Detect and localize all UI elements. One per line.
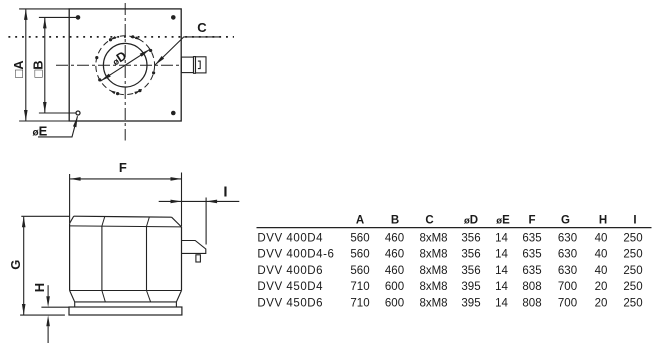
svg-text:I: I [633,214,636,226]
svg-text:560: 560 [350,265,369,277]
fan body lid seam [70,226,182,227]
svg-text:460: 460 [385,265,404,277]
plate outline (square base plate, top view) [69,9,181,121]
svg-text:F: F [119,160,127,175]
fan body bottom rim [75,301,177,303]
bolt hole dot 3 [109,38,112,41]
svg-text:40: 40 [595,232,608,244]
svg-text:14: 14 [495,232,508,244]
bolt hole dot 6 [116,92,119,95]
svg-text:B: B [391,214,399,226]
svg-text:808: 808 [522,298,541,310]
svg-text:808: 808 [522,281,541,293]
svg-text:8xM8: 8xM8 [419,298,447,310]
terminal box neck (top view) [181,57,193,73]
bolt hole dot 4 [95,56,98,59]
svg-text:14: 14 [495,265,508,277]
panel line 2 [146,226,148,290]
extension line A top [19,8,69,10]
svg-text:8xM8: 8xM8 [419,232,447,244]
svg-text:I: I [223,184,227,201]
dimension line G [23,217,25,315]
extension line F left [69,174,71,223]
svg-text:250: 250 [623,232,642,244]
terminal box (side view) [182,241,206,254]
svg-text:DVV 400D6: DVV 400D6 [257,265,323,277]
panel line 1 [101,226,103,291]
terminal box body (top view) [196,57,207,73]
extension line B top [39,16,76,18]
fan body lid bevel right [172,217,182,227]
corner hole bottom-right [171,111,176,116]
svg-text:356: 356 [461,265,480,277]
leader line oE [38,116,78,137]
svg-text:635: 635 [522,265,541,277]
bolt hole dot 8 [152,71,155,74]
dimension line H lower segment [47,326,49,343]
svg-text:560: 560 [350,249,369,261]
stub left [74,302,76,307]
svg-text:395: 395 [461,298,480,310]
svg-text:8xM8: 8xM8 [419,265,447,277]
svg-text:8xM8: 8xM8 [419,281,447,293]
lower taper left [70,291,75,302]
svg-text:250: 250 [623,298,642,310]
svg-text:F: F [528,214,535,226]
centerline dash in neck [185,64,193,66]
extension line B bottom [39,112,76,114]
bolt hole dot 7 [138,89,141,92]
lower taper at panel 2 [147,291,151,302]
table header rule [257,227,652,229]
svg-text:600: 600 [385,298,404,310]
svg-text:700: 700 [558,281,577,293]
cable gland (side view) [196,255,201,262]
svg-text:20: 20 [595,298,608,310]
terminal box inner detail (top view) [198,61,200,69]
extension line F right / I left [181,173,183,227]
svg-text:G: G [561,214,570,226]
base plate (side view) [69,307,182,315]
svg-text:250: 250 [623,281,642,293]
extension line G top [21,215,69,217]
svg-text:700: 700 [558,298,577,310]
lid seam diagonal at panel 2 [147,217,150,227]
svg-text:560: 560 [350,232,369,244]
dotted reference line [8,36,234,38]
extension line G bottom [20,314,65,316]
svg-text:A: A [356,214,364,226]
svg-text:635: 635 [522,232,541,244]
svg-text:250: 250 [623,249,642,261]
fan body right side [181,227,183,291]
svg-text:C: C [197,20,207,35]
extension line I right [205,198,207,245]
svg-text:710: 710 [350,298,369,310]
fan body top face [74,216,172,217]
fan body lid bevel left [70,216,74,223]
svg-text:DVV 400D4-6: DVV 400D4-6 [257,249,334,261]
dimension line I [159,200,240,202]
extension line H top [41,306,69,308]
svg-text:395: 395 [461,281,480,293]
svg-text:G: G [8,260,23,270]
lower taper right [176,291,181,302]
dimension line B [44,18,46,113]
svg-text:□A: □A [11,60,26,78]
bolt hole dot 2 [131,35,134,38]
svg-text:14: 14 [495,281,508,293]
svg-text:8xM8: 8xM8 [419,249,447,261]
svg-text:460: 460 [385,249,404,261]
terminal box flange (top view) [194,57,196,74]
svg-text:14: 14 [495,298,508,310]
svg-text:DVV 450D4: DVV 450D4 [257,281,323,293]
corner hole top-right [171,15,176,20]
fan body lower rim [70,290,182,292]
svg-text:356: 356 [461,232,480,244]
dimension line oD (diagonal) [101,49,150,81]
svg-text:20: 20 [595,281,608,293]
svg-text:40: 40 [595,249,608,261]
svg-text:14: 14 [495,249,508,261]
dimension line H upper segment [47,285,49,296]
fan body left side [69,223,71,290]
svg-text:□B: □B [30,60,45,77]
svg-text:600: 600 [385,281,404,293]
svg-text:635: 635 [522,249,541,261]
svg-text:H: H [599,214,607,226]
dimension line F [70,178,181,180]
inlet circle [103,43,147,87]
svg-text:H: H [32,283,47,292]
svg-text:710: 710 [350,281,369,293]
lid seam diagonal at panel 1 [102,217,105,227]
horizontal centerline [56,64,181,66]
rotation arrow on bolt circle at 64 deg [135,36,141,40]
rotation arrow on bolt circle at 295 deg [134,91,140,95]
corner hole top-left [76,15,81,20]
leader line C [155,37,221,65]
svg-text:630: 630 [558,232,577,244]
dimension line A [25,9,27,120]
vertical centerline [124,3,126,141]
svg-text:DVV 450D6: DVV 450D6 [257,298,323,310]
bolt hole dot 1 [149,49,152,52]
svg-text:460: 460 [385,232,404,244]
svg-text:DVV 400D4: DVV 400D4 [257,232,323,244]
svg-text:630: 630 [558,249,577,261]
svg-text:øE: øE [496,214,510,226]
svg-text:356: 356 [461,249,480,261]
svg-text:40: 40 [595,265,608,277]
svg-text:øD: øD [464,214,478,226]
svg-text:250: 250 [623,265,642,277]
lower taper at panel 1 [102,291,105,302]
svg-text:630: 630 [558,265,577,277]
corner hole bottom-left (open, ref oE) [76,111,80,115]
stub right [175,302,177,307]
rotation arrow on bolt circle at 244 deg [110,90,116,94]
rotation arrow on bolt circle at 115 deg [110,36,116,40]
svg-text:C: C [425,214,433,226]
bolt hole dot 5 [98,78,101,81]
bolt circle (dashed) [96,36,155,95]
extension line A bottom [19,120,69,122]
